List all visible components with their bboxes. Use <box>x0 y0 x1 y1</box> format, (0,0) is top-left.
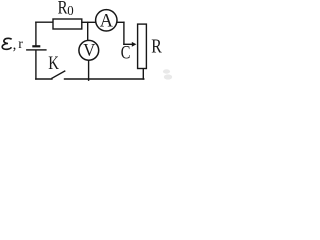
ammeter U-A circle <box>96 10 117 31</box>
svg-text:r: r <box>18 37 23 52</box>
svg-text:,: , <box>13 37 17 53</box>
wire resistor to ammeter <box>82 21 95 23</box>
node junction voltmeter top tap <box>87 22 89 40</box>
rheostat R body <box>138 24 147 68</box>
wire left vertical (top to battery) <box>35 22 37 45</box>
voltmeter U-V circle <box>79 40 99 60</box>
svg-text:0: 0 <box>67 3 74 18</box>
wire bottom rail left of switch <box>36 78 52 80</box>
wire ammeter to corner <box>117 21 124 23</box>
wire left vertical (battery to bottom) <box>35 50 37 79</box>
svg-text:R: R <box>151 35 162 57</box>
svg-text:C: C <box>121 42 131 63</box>
wire slider horizontal shaft <box>124 43 133 45</box>
wire bottom rail right of switch <box>65 78 144 80</box>
wire top-left horizontal segment <box>36 21 53 23</box>
wire right vertical down to slider <box>123 22 125 44</box>
wire rheostat bottom stub <box>142 69 144 79</box>
battery plate short thick (negative) <box>32 45 40 47</box>
svg-text:K: K <box>48 52 59 73</box>
label EMF script-E <box>2 38 11 49</box>
slider arrowhead contact C <box>132 42 137 47</box>
switch K blade <box>52 71 65 78</box>
svg-text:V: V <box>83 41 95 61</box>
svg-text:A: A <box>100 10 114 31</box>
resistor R0 <box>53 19 82 29</box>
battery plate long thin (positive) <box>26 49 46 50</box>
wire voltmeter bottom stub <box>88 61 90 80</box>
scan smudge artifact <box>163 69 172 79</box>
